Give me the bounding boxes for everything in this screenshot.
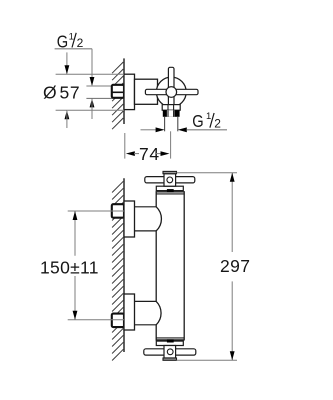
dim 150±11 <box>74 211 76 256</box>
top handle screw <box>167 177 173 183</box>
wall hatching (top view) <box>112 62 123 129</box>
upper union neck <box>135 206 157 208</box>
bottom handle stem (black) <box>167 339 174 342</box>
handle horizontal arm (top view) <box>145 89 198 94</box>
dim G1/2 outlet (right) <box>141 129 157 131</box>
G1/2 inlet pipe stub (top view) <box>86 85 112 87</box>
dim 150 extension line bottom <box>68 319 124 321</box>
top handle hub <box>164 174 176 187</box>
dim Ø57 arrows <box>66 52 68 73</box>
svg-text:G: G <box>192 111 203 131</box>
svg-text:2: 2 <box>214 116 221 130</box>
top handle bar <box>145 177 195 183</box>
escutcheon (top view) <box>124 74 135 109</box>
dim G1/2 leader/arrows <box>91 49 93 85</box>
top handle flange <box>156 186 183 190</box>
handle circle (top view) <box>156 77 186 107</box>
upper escutcheon <box>124 201 135 237</box>
handle hub (top view) <box>166 87 177 98</box>
mixer body <box>156 192 184 340</box>
dim 74 <box>124 133 126 159</box>
handle vertical arm (top view) <box>168 67 174 105</box>
svg-text:150±11: 150±11 <box>40 258 99 278</box>
svg-text:1: 1 <box>69 31 74 42</box>
lower union neck <box>135 300 157 302</box>
top handle stem (black) <box>167 189 174 192</box>
hex nut (top view) <box>112 85 124 98</box>
dim 297 <box>231 173 233 252</box>
dim 297 extension lines <box>177 172 238 174</box>
svg-text:1: 1 <box>206 111 211 122</box>
bottom handle flange <box>156 341 183 345</box>
wall hatching (front view) <box>112 181 123 360</box>
outlet thread (top view) <box>163 110 180 117</box>
bottom handle screw <box>167 349 173 355</box>
outlet pipe (top view) <box>164 117 166 132</box>
bottom handle tab <box>163 358 177 360</box>
bottom handle hub <box>164 346 176 359</box>
upper inlet hex nut <box>112 204 124 218</box>
svg-text:57: 57 <box>60 83 81 103</box>
valve stem lines <box>167 105 169 111</box>
bottom handle bar <box>144 349 196 355</box>
outlet pipe centerline <box>170 131 172 158</box>
svg-text:Ø: Ø <box>43 83 57 103</box>
bonnet (top view) <box>162 105 180 111</box>
wall (top view) <box>123 58 125 124</box>
top handle tab <box>163 171 177 173</box>
svg-text:2: 2 <box>77 36 84 50</box>
dim 150 extension line top <box>68 210 124 212</box>
lower escutcheon <box>124 294 135 330</box>
body cap inner lines <box>156 193 184 195</box>
svg-text:297: 297 <box>220 256 250 276</box>
lower inlet hex nut <box>112 314 124 328</box>
wall (front view) <box>123 178 125 352</box>
dim Ø57 extension lines <box>56 73 124 75</box>
valve body tube (top view) <box>135 79 158 104</box>
